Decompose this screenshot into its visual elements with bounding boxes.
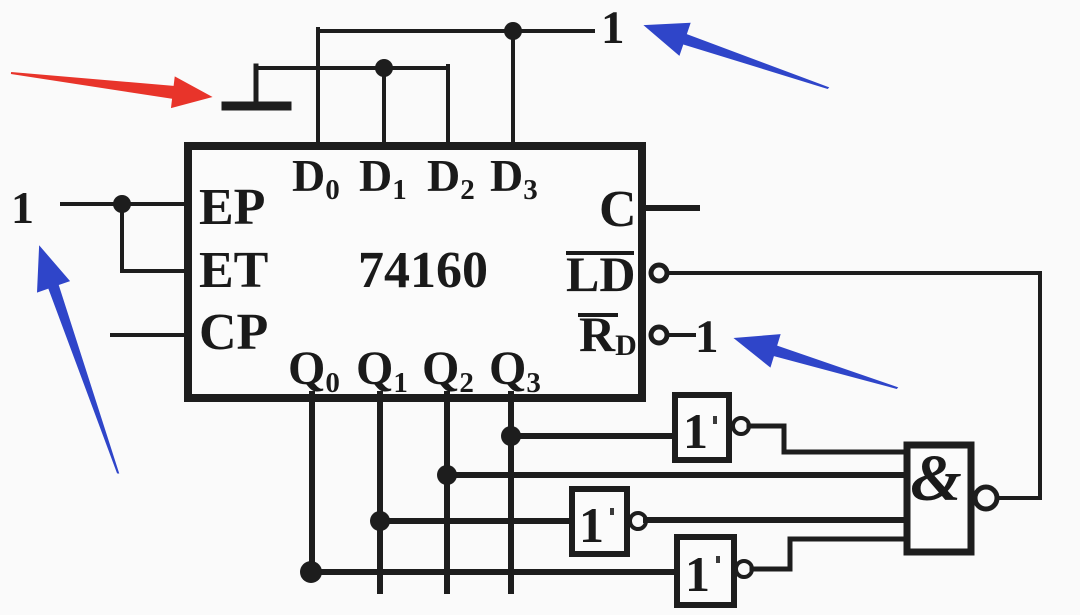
wire G3 output xyxy=(752,539,907,569)
blue annotation arrow (top right, points at 1) xyxy=(638,9,835,105)
wire D0 vertical xyxy=(316,29,320,146)
wire Q2 vertical xyxy=(444,394,450,591)
svg-text:1: 1 xyxy=(579,497,604,553)
wire D2 vertical xyxy=(446,66,450,146)
wire LD feedback horizontal xyxy=(668,271,1040,275)
wire Q0 vertical xyxy=(309,394,315,572)
inverter G2 bubble xyxy=(630,513,646,529)
inverter G2 tick mark xyxy=(610,508,614,515)
wire G1 output xyxy=(749,426,907,452)
svg-text:1: 1 xyxy=(601,2,625,54)
wire top rail (D0,D3 to logic 1) xyxy=(318,29,593,33)
inverter G3 bubble xyxy=(736,561,752,577)
wire Q1 rail to inverter G2 xyxy=(380,518,572,524)
wire D1 vertical xyxy=(382,66,386,146)
inverter G3 tick mark xyxy=(716,556,720,563)
wire D3 vertical xyxy=(511,29,515,146)
wire feedback vertical xyxy=(1038,273,1042,498)
svg-text:1: 1 xyxy=(11,182,34,233)
wire ET input xyxy=(122,269,188,273)
svg-text:CP: CP xyxy=(199,304,268,361)
wire CP stub xyxy=(112,333,188,337)
AND gate G4 body xyxy=(907,445,971,552)
wire Q2 rail to AND input xyxy=(447,472,907,478)
junction dot EP/ET xyxy=(113,195,131,213)
AND gate G4 output bubble xyxy=(975,487,997,509)
wire G2 output xyxy=(646,517,907,523)
junction dot Q0 rail xyxy=(300,561,322,583)
svg-text:1: 1 xyxy=(685,546,710,602)
inverter G1 body xyxy=(675,395,729,460)
junction dot Q2 rail xyxy=(437,465,457,485)
ground lead xyxy=(254,66,259,104)
wire RD stub xyxy=(668,333,694,337)
wire second rail (D1,D2 to ground) xyxy=(256,66,448,70)
ground bar xyxy=(226,102,287,111)
svg-text:74160: 74160 xyxy=(358,242,488,299)
wire C stub xyxy=(644,205,697,211)
svg-text:1: 1 xyxy=(695,311,719,363)
inverter G1 bubble xyxy=(733,418,749,434)
wire feedback to AND output xyxy=(1000,496,1040,500)
wire EP input xyxy=(62,202,188,206)
junction dot Q1 rail xyxy=(370,511,390,531)
red annotation arrow (points at ground) xyxy=(9,57,214,113)
svg-text:1: 1 xyxy=(683,403,708,459)
wire Q3 vertical xyxy=(508,394,514,591)
wire Q0 rail to inverter G3 xyxy=(311,569,677,575)
svg-text:C: C xyxy=(599,181,637,238)
inverter G3 body xyxy=(677,537,734,605)
junction dot second rail / D1 xyxy=(375,59,393,77)
inverter G2 body xyxy=(572,489,627,554)
blue annotation arrow (bottom left, points at 1) xyxy=(23,240,135,480)
inverter G1 tick mark xyxy=(713,416,717,424)
LD output bubble xyxy=(651,265,667,281)
wire Q1 vertical xyxy=(377,394,383,591)
blue annotation arrow (middle right, points at RD 1) xyxy=(728,321,903,405)
wire EP-ET branch vertical xyxy=(120,204,124,271)
svg-text:EP: EP xyxy=(199,179,265,236)
svg-text:ET: ET xyxy=(199,242,268,299)
IC U1 74160 body xyxy=(188,146,642,398)
svg-text:&: & xyxy=(910,442,961,515)
wire Q3 rail to inverter G1 xyxy=(511,433,675,439)
junction dot top rail / D3 xyxy=(504,22,522,40)
junction dot Q3 rail xyxy=(501,426,521,446)
RD output bubble xyxy=(651,327,667,343)
